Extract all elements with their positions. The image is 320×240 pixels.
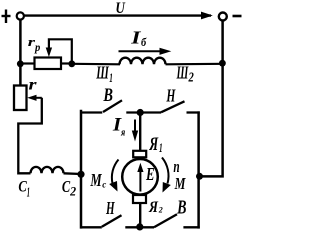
inductor C1-C2 series winding [31,167,64,173]
wire box bottom edge right segment [183,226,199,228]
node junction dot rp right [68,60,75,67]
resistor r (vertical rheostat) [14,86,27,111]
svg-text:Ш: Ш [96,62,110,82]
svg-text:б: б [141,35,147,49]
torque arrow Mc (left arc) [112,160,119,184]
node junction dot armature top [137,109,144,116]
node junction dot left rp [17,60,24,67]
wire box top edge left segment [80,111,102,113]
rotation arrow n M (right arc) [162,158,169,184]
label Iv current arrow [119,50,162,52]
wire rp left lead [20,62,35,64]
svg-text:2: 2 [188,70,194,85]
wire r wiper arrow [33,97,42,99]
wire rp right lead [61,62,72,64]
node junction dot box left edge [77,171,84,178]
terminal circle right [219,13,227,21]
wire right rail drop [200,21,223,177]
resistor rp (rheostat body) [35,58,62,70]
brush bottom [133,195,146,203]
svg-text:U: U [115,0,126,17]
wire field branch to coil [72,63,120,66]
wire box bottom edge left segment [80,226,102,228]
svg-text:1: 1 [109,70,113,85]
wire armature drop bottom [139,203,141,227]
svg-text:М: М [174,174,187,193]
minus terminal label [233,15,242,18]
switch N bottom blade [102,215,122,227]
wire box left edge [80,110,83,229]
wire box top edge right segment [187,111,200,113]
switch V bottom blade [154,214,177,227]
arrow on top rail [201,12,213,20]
wire coil to right rail [166,63,224,66]
svg-text:r: r [29,77,38,94]
plus terminal label + [2,10,11,24]
svg-text:М: М [90,170,103,190]
svg-text:В: В [176,197,186,218]
svg-text:E: E [145,164,154,184]
wire left drop from + terminal [19,20,22,86]
svg-text:Н: Н [166,85,176,105]
terminal circle left [17,12,24,19]
svg-text:1: 1 [159,141,163,155]
brush top [133,151,146,158]
svg-text:Я: Я [148,199,159,216]
wire armature drop top [139,113,141,152]
svg-text:В: В [103,86,113,106]
svg-text:1: 1 [27,186,30,201]
node junction dot armature bottom [136,223,143,230]
svg-text:2: 2 [158,205,164,215]
wire rheostat wiper loop rp [49,39,72,63]
switch V top blade [103,100,122,112]
motor armature circle [122,159,158,195]
wire box bottom edge mid segment [125,226,154,228]
wire wiper down to series branch [18,98,42,174]
svg-text:2: 2 [69,184,76,199]
inductor Sh1-Sh2 shunt winding [120,58,166,65]
wire box top edge mid segment [126,111,161,113]
svg-text:я: я [120,127,125,139]
wire coil to box left edge [64,172,82,175]
node junction dot right edge [196,173,203,180]
wire top rail [25,14,212,16]
svg-text:Н: Н [105,198,115,218]
svg-text:Я: Я [149,134,159,155]
label E with EMF arrow [139,167,141,192]
switch N top blade [161,101,185,112]
svg-text:p: p [34,42,40,54]
wire box right edge [197,111,200,228]
node junction dot right rail [219,60,226,67]
svg-text:Ш: Ш [176,63,189,83]
